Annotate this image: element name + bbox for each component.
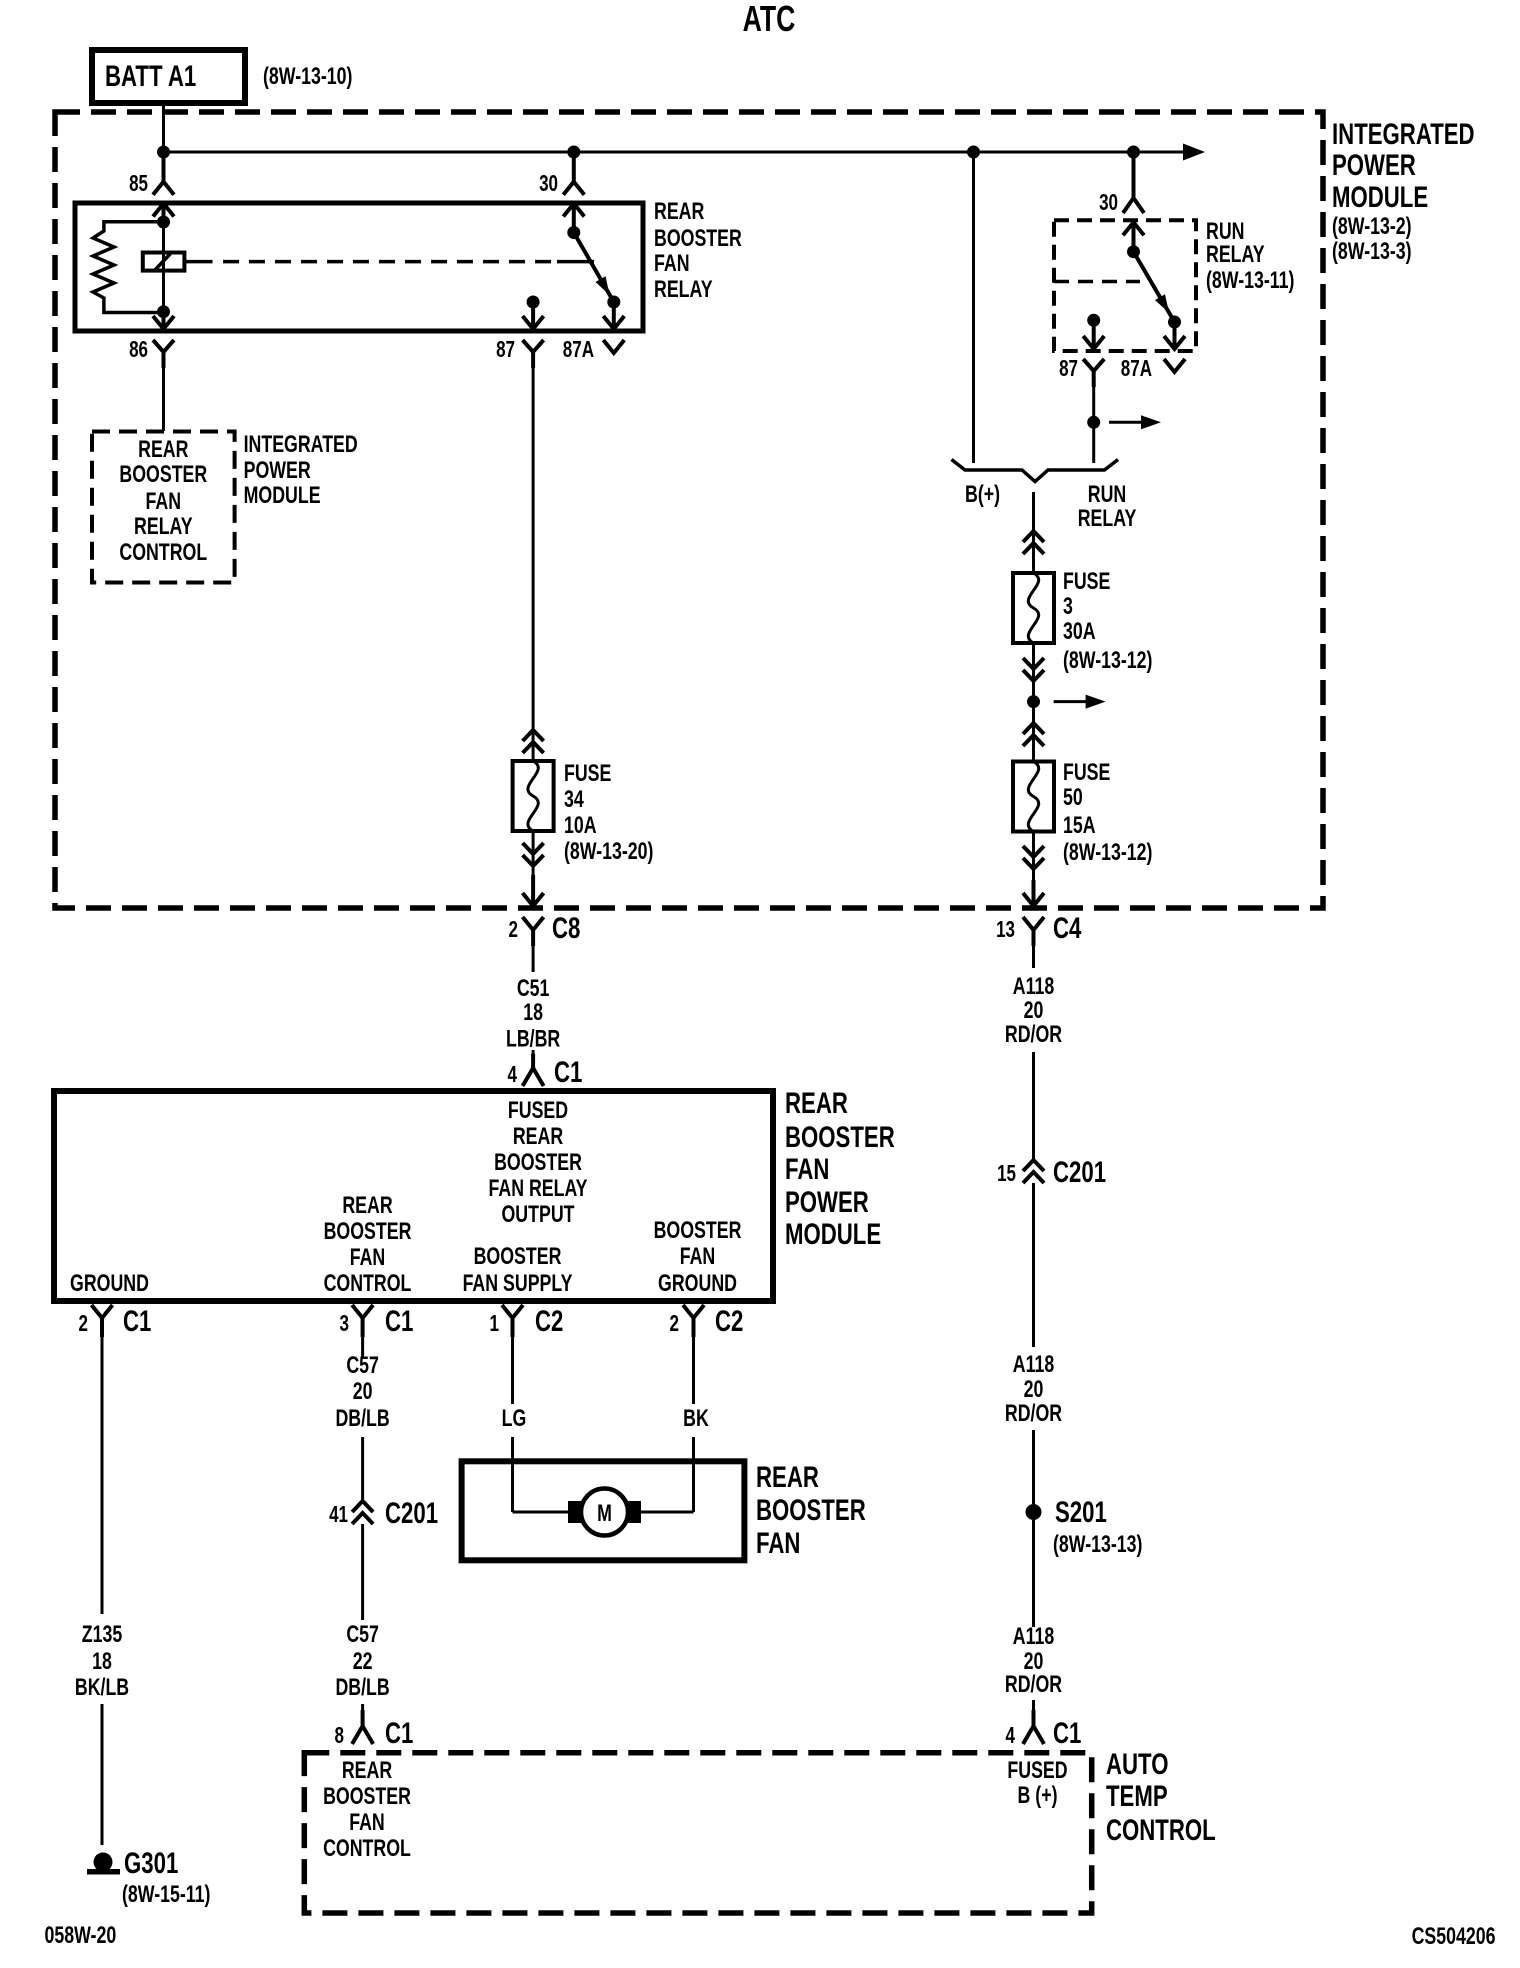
svg-text:87: 87 — [1059, 357, 1078, 382]
arrow fused B(+) branch — [1054, 695, 1106, 709]
wire fuse 50 to C4 — [1032, 832, 1035, 907]
svg-text:A118: A118 — [1013, 974, 1055, 1000]
label module pin ground — [70, 1271, 149, 1297]
relay K1 switch blade — [527, 204, 621, 309]
svg-text:FAN: FAN — [756, 1526, 800, 1560]
resistor relay K1 suppression — [93, 222, 164, 313]
label module pin fused rear booster fan relay output — [488, 1098, 587, 1228]
wire to C201 pin 41 — [361, 1437, 364, 1503]
connector run relay pin 87 — [1059, 320, 1104, 387]
svg-text:1: 1 — [490, 1312, 499, 1337]
power module box — [54, 1091, 773, 1301]
svg-text:2: 2 — [79, 1312, 88, 1337]
svg-text:MODULE: MODULE — [1332, 180, 1428, 214]
svg-text:POWER: POWER — [1332, 148, 1416, 182]
svg-text:REAR: REAR — [756, 1460, 819, 1494]
svg-text:(8W-13-20): (8W-13-20) — [564, 839, 653, 865]
svg-text:POWER: POWER — [785, 1185, 869, 1219]
wire pin 87 to fuse 34 — [532, 368, 535, 761]
svg-text:3: 3 — [1063, 594, 1073, 620]
connector module C2 pin 1 — [490, 1304, 564, 1338]
label B(+) — [965, 482, 1000, 508]
fuse F50 — [1013, 762, 1054, 832]
connector fuse 3 top — [1023, 531, 1044, 554]
svg-text:C2: C2 — [715, 1304, 743, 1338]
svg-text:8: 8 — [335, 1724, 344, 1749]
connector C4 pin 13 — [996, 880, 1082, 946]
svg-text:30: 30 — [539, 172, 558, 197]
svg-text:C57: C57 — [346, 1353, 379, 1379]
arrow B(+) bus continuation — [1183, 144, 1205, 161]
svg-text:C8: C8 — [552, 911, 580, 945]
fuse F3 — [1013, 573, 1054, 643]
svg-text:BOOSTER: BOOSTER — [494, 1150, 582, 1176]
motor M1 — [513, 1489, 694, 1536]
svg-text:REAR: REAR — [138, 437, 188, 463]
arrow run relay 87 branch — [1109, 415, 1161, 429]
label fuse 3 — [1063, 569, 1152, 674]
ground G301 — [87, 1846, 210, 1908]
run relay internal dashed line — [1054, 280, 1140, 284]
connector fuse 50 top — [1023, 723, 1044, 746]
wire run relay 87 down — [1092, 387, 1095, 463]
relay K1 coil to switch dashed link — [184, 260, 594, 264]
label fuse 34 — [564, 761, 653, 865]
svg-text:FAN: FAN — [680, 1244, 716, 1270]
svg-text:20: 20 — [1024, 1377, 1044, 1403]
svg-text:4: 4 — [1006, 1724, 1016, 1749]
battery feed box BATT A1 — [92, 50, 245, 103]
wire label A118 20 RD/OR upper — [1005, 946, 1062, 1048]
connector ATC C1 pin 8 — [335, 1704, 414, 1750]
svg-text:LB/BR: LB/BR — [506, 1026, 560, 1052]
rear booster fan relay control box — [92, 432, 235, 583]
svg-text:(8W-13-12): (8W-13-12) — [1063, 648, 1152, 674]
svg-text:87: 87 — [496, 338, 515, 363]
svg-text:87A: 87A — [563, 338, 595, 363]
svg-text:20: 20 — [353, 1379, 373, 1405]
wire label Z135 18 BK/LB — [75, 1622, 129, 1701]
svg-text:AUTO: AUTO — [1106, 1747, 1168, 1781]
svg-text:20: 20 — [1024, 998, 1044, 1024]
svg-text:C1: C1 — [385, 1716, 413, 1750]
relay K1 coil — [143, 216, 185, 319]
svg-text:87A: 87A — [1121, 357, 1153, 382]
wire fuse 34 to C8 — [532, 831, 535, 906]
wire C201 to S201 upper — [1032, 1183, 1035, 1347]
label sheet CS504206 — [1412, 1924, 1496, 1950]
splice S201 — [1026, 1495, 1143, 1558]
svg-text:058W-20: 058W-20 — [45, 1923, 117, 1949]
auto temp control box — [304, 1753, 1091, 1913]
node bus junction pin 85 — [157, 146, 170, 159]
svg-text:(8W-13-11): (8W-13-11) — [1206, 268, 1294, 294]
svg-text:RELAY: RELAY — [1206, 242, 1265, 268]
svg-text:BK: BK — [683, 1406, 709, 1432]
svg-text:2: 2 — [509, 918, 518, 943]
svg-text:FAN SUPPLY: FAN SUPPLY — [463, 1271, 573, 1297]
wire label C51 18 LB/BR — [506, 946, 560, 1052]
motor box rear booster fan — [462, 1461, 745, 1560]
svg-text:FUSED: FUSED — [508, 1098, 568, 1124]
svg-text:ATC: ATC — [743, 0, 796, 39]
svg-text:15A: 15A — [1063, 813, 1096, 839]
connector pin 87 — [496, 302, 544, 368]
wire label A118 20 RD/OR lower — [1005, 1624, 1062, 1698]
connector C8 pin 2 — [509, 875, 581, 946]
svg-text:(8W-13-3): (8W-13-3) — [1332, 239, 1412, 265]
connector pin 87A — [563, 302, 625, 363]
label module pin rear booster fan control — [324, 1193, 412, 1297]
connector module C2 pin 2 — [670, 1304, 744, 1338]
connector pin 30 — [539, 152, 584, 233]
svg-text:G301: G301 — [124, 1846, 178, 1880]
svg-text:FAN RELAY: FAN RELAY — [488, 1176, 587, 1202]
label module pin booster fan ground — [654, 1218, 742, 1297]
svg-text:C51: C51 — [517, 976, 550, 1002]
label rear booster fan — [756, 1460, 866, 1560]
node bus junction B(+) branch — [967, 146, 980, 159]
node bus junction pin 30 — [567, 146, 580, 159]
svg-text:BOOSTER: BOOSTER — [785, 1120, 895, 1154]
connector C201 pin 15 — [997, 1155, 1106, 1189]
wire BK to motor — [683, 1337, 709, 1512]
label ATC fused B(+) pin — [1007, 1758, 1067, 1809]
wire LG to motor — [502, 1337, 527, 1512]
svg-text:(8W-13-2): (8W-13-2) — [1332, 214, 1412, 240]
svg-text:TEMP: TEMP — [1106, 1779, 1168, 1813]
svg-text:C201: C201 — [385, 1496, 438, 1530]
wire label A118 20 RD/OR middle — [1005, 1352, 1062, 1427]
label run relay — [1206, 219, 1294, 294]
connector pin 86 — [129, 312, 174, 368]
svg-text:OUTPUT: OUTPUT — [501, 1202, 574, 1228]
svg-text:86: 86 — [129, 338, 148, 363]
label run relay feed — [1078, 482, 1137, 532]
reference label (8W-13-10) — [263, 64, 352, 90]
connector fuse 50 bottom — [1023, 846, 1044, 869]
svg-text:85: 85 — [129, 172, 148, 197]
svg-text:MODULE: MODULE — [244, 483, 321, 509]
svg-text:RD/OR: RD/OR — [1005, 1672, 1062, 1698]
fuse F34 — [513, 761, 554, 831]
wire Z135 to ground — [101, 1704, 104, 1845]
svg-text:CONTROL: CONTROL — [119, 540, 207, 566]
svg-text:B(+): B(+) — [965, 482, 1000, 508]
wire ground Z135 — [101, 1337, 104, 1614]
svg-text:FAN: FAN — [146, 489, 182, 515]
wire pin 86 to relay control — [162, 368, 165, 431]
svg-text:C1: C1 — [554, 1055, 582, 1089]
svg-text:A118: A118 — [1013, 1352, 1055, 1378]
connector fuse 34 bottom — [523, 843, 544, 866]
svg-text:POWER: POWER — [244, 458, 311, 484]
svg-text:S201: S201 — [1055, 1495, 1107, 1529]
svg-text:22: 22 — [353, 1649, 373, 1675]
svg-text:GROUND: GROUND — [70, 1271, 149, 1297]
svg-text:REAR: REAR — [342, 1193, 392, 1219]
label rear booster fan power module — [785, 1086, 895, 1251]
svg-text:M: M — [597, 1501, 612, 1527]
svg-text:REAR: REAR — [654, 199, 704, 225]
svg-text:13: 13 — [996, 918, 1015, 943]
svg-text:10A: 10A — [564, 813, 597, 839]
connector C201 pin 41 — [329, 1496, 438, 1530]
connector run relay pin 30 — [1099, 152, 1144, 252]
svg-text:C201: C201 — [1053, 1155, 1106, 1189]
connector fuse 34 top — [523, 730, 544, 753]
svg-text:BOOSTER: BOOSTER — [654, 226, 742, 252]
svg-text:BOOSTER: BOOSTER — [654, 1218, 742, 1244]
wire fuse 3 to fuse 50 — [1032, 643, 1035, 762]
svg-text:C1: C1 — [1053, 1716, 1081, 1750]
svg-text:2: 2 — [670, 1312, 679, 1337]
svg-text:C2: C2 — [535, 1304, 563, 1338]
svg-text:BK/LB: BK/LB — [75, 1675, 129, 1701]
svg-text:C57: C57 — [346, 1622, 379, 1648]
svg-text:MODULE: MODULE — [785, 1217, 881, 1251]
svg-text:C1: C1 — [385, 1304, 413, 1338]
svg-text:RUN: RUN — [1088, 482, 1126, 508]
svg-text:FUSE: FUSE — [564, 761, 611, 787]
node run relay 87 junction — [1087, 416, 1100, 429]
svg-text:GROUND: GROUND — [658, 1271, 737, 1297]
svg-text:CONTROL: CONTROL — [324, 1271, 412, 1297]
svg-text:FUSE: FUSE — [1063, 760, 1110, 786]
svg-text:FUSED: FUSED — [1007, 1758, 1067, 1784]
label sheet 058W-20 — [45, 1923, 117, 1949]
svg-text:RELAY: RELAY — [654, 277, 713, 303]
wire C57 upper — [361, 1337, 364, 1358]
wire S201 down — [1032, 1520, 1035, 1627]
wire brace to fuse 3 — [1032, 492, 1035, 573]
svg-text:DB/LB: DB/LB — [335, 1406, 389, 1432]
svg-text:BOOSTER: BOOSTER — [756, 1493, 866, 1527]
label module pin booster fan supply — [463, 1244, 573, 1297]
svg-text:FAN: FAN — [654, 251, 690, 277]
svg-text:BOOSTER: BOOSTER — [324, 1219, 412, 1245]
svg-text:50: 50 — [1063, 785, 1083, 811]
wire C201 to ATC — [361, 1524, 364, 1620]
svg-text:FAN: FAN — [785, 1152, 829, 1186]
svg-text:(8W-15-11): (8W-15-11) — [122, 1882, 210, 1908]
svg-text:INTEGRATED: INTEGRATED — [244, 432, 358, 458]
relay K1 rear booster fan relay box — [75, 203, 643, 331]
svg-text:30A: 30A — [1063, 619, 1096, 645]
node bus junction run relay 30 — [1127, 146, 1140, 159]
svg-text:FAN: FAN — [349, 1810, 385, 1836]
wire to splice S201 — [1032, 1430, 1035, 1504]
svg-text:18: 18 — [92, 1649, 112, 1675]
svg-text:4: 4 — [508, 1063, 518, 1088]
svg-text:RD/OR: RD/OR — [1005, 1022, 1062, 1048]
connector pin 85 — [129, 152, 174, 222]
connector fuse 3 bottom — [1023, 658, 1044, 681]
connector ATC C1 pin 4 — [1006, 1700, 1082, 1750]
svg-text:RELAY: RELAY — [134, 514, 193, 540]
node fuse 3 output junction — [1027, 695, 1040, 708]
svg-text:C4: C4 — [1053, 911, 1082, 945]
svg-text:(8W-13-10): (8W-13-10) — [263, 64, 352, 90]
label fuse 50 — [1063, 760, 1152, 866]
svg-text:(8W-13-12): (8W-13-12) — [1063, 840, 1152, 866]
svg-text:3: 3 — [340, 1312, 349, 1337]
svg-text:FUSE: FUSE — [1063, 569, 1110, 595]
svg-text:REAR: REAR — [342, 1758, 392, 1784]
connector run relay pin 87A — [1121, 322, 1185, 382]
connector C1 pin 4 — [508, 1050, 583, 1089]
svg-text:INTEGRATED: INTEGRATED — [1332, 117, 1475, 151]
wire label C57 20 DB/LB — [335, 1353, 389, 1432]
svg-text:BOOSTER: BOOSTER — [474, 1244, 562, 1270]
svg-text:B (+): B (+) — [1018, 1783, 1058, 1809]
wire B(+) branch down — [972, 152, 975, 463]
svg-text:LG: LG — [502, 1406, 527, 1432]
connector module C1 pin 2 — [79, 1304, 152, 1338]
svg-text:CONTROL: CONTROL — [1106, 1813, 1216, 1847]
label ATC rear booster fan control pin — [323, 1758, 411, 1862]
label auto temp control — [1106, 1747, 1216, 1847]
svg-text:C1: C1 — [123, 1304, 151, 1338]
svg-text:41: 41 — [329, 1503, 348, 1528]
run relay switch blade — [1087, 245, 1181, 328]
run relay box — [1054, 220, 1196, 351]
svg-text:BATT A1: BATT A1 — [105, 59, 196, 93]
svg-text:Z135: Z135 — [82, 1622, 123, 1648]
wire B(+) bus — [164, 151, 1185, 154]
svg-text:FAN: FAN — [350, 1245, 386, 1271]
svg-text:RELAY: RELAY — [1078, 506, 1137, 532]
integrated power module boundary box — [55, 112, 1323, 908]
svg-text:CONTROL: CONTROL — [323, 1836, 411, 1862]
svg-text:BOOSTER: BOOSTER — [119, 462, 207, 488]
svg-text:34: 34 — [564, 787, 584, 813]
svg-text:(8W-13-13): (8W-13-13) — [1053, 1532, 1142, 1558]
svg-text:REAR: REAR — [785, 1086, 848, 1120]
label integrated power module at control — [244, 432, 358, 509]
wire label C57 22 DB/LB — [335, 1622, 389, 1701]
svg-text:RD/OR: RD/OR — [1005, 1401, 1062, 1427]
svg-text:A118: A118 — [1013, 1624, 1055, 1650]
svg-text:18: 18 — [523, 1000, 543, 1026]
svg-text:BOOSTER: BOOSTER — [323, 1784, 411, 1810]
svg-text:DB/LB: DB/LB — [335, 1675, 389, 1701]
svg-text:REAR: REAR — [513, 1124, 563, 1150]
wire C4 to C201 — [1032, 1052, 1035, 1160]
label rear booster fan relay — [654, 199, 742, 303]
svg-text:CS504206: CS504206 — [1412, 1924, 1496, 1950]
brace B(+) and run relay join — [952, 460, 1119, 482]
label integrated power module title — [1332, 117, 1475, 265]
title ATC — [743, 0, 796, 39]
wire battery feed down to bus — [162, 103, 165, 152]
svg-text:15: 15 — [997, 1162, 1016, 1187]
svg-text:30: 30 — [1099, 191, 1118, 216]
connector module C1 pin 3 — [340, 1304, 414, 1338]
